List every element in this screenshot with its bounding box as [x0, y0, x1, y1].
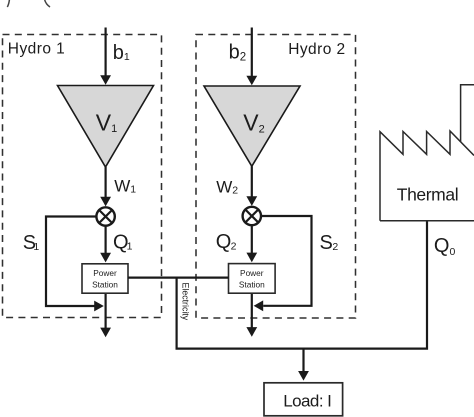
svg-text:Power: Power	[93, 268, 117, 278]
svg-text:Q0: Q0	[434, 235, 456, 258]
svg-text:b1: b1	[113, 42, 130, 64]
svg-text:Thermal: Thermal	[397, 185, 458, 205]
svg-text:W1: W1	[114, 176, 136, 195]
svg-text:Q2: Q2	[216, 231, 237, 253]
svg-text:Load: I: Load: I	[283, 392, 331, 411]
svg-text:Q1: Q1	[113, 232, 133, 254]
svg-text:Hydro 1: Hydro 1	[8, 40, 65, 57]
svg-text:Hydro 2: Hydro 2	[288, 41, 345, 58]
svg-text:S2: S2	[320, 232, 339, 254]
svg-text:b2: b2	[229, 42, 247, 64]
svg-text:W2: W2	[216, 177, 238, 196]
svg-text:S1: S1	[23, 232, 40, 254]
svg-text:Station: Station	[92, 279, 118, 289]
svg-text:Station: Station	[239, 279, 265, 289]
svg-text:Electricity: Electricity	[181, 283, 191, 321]
svg-text:Power: Power	[240, 268, 264, 278]
